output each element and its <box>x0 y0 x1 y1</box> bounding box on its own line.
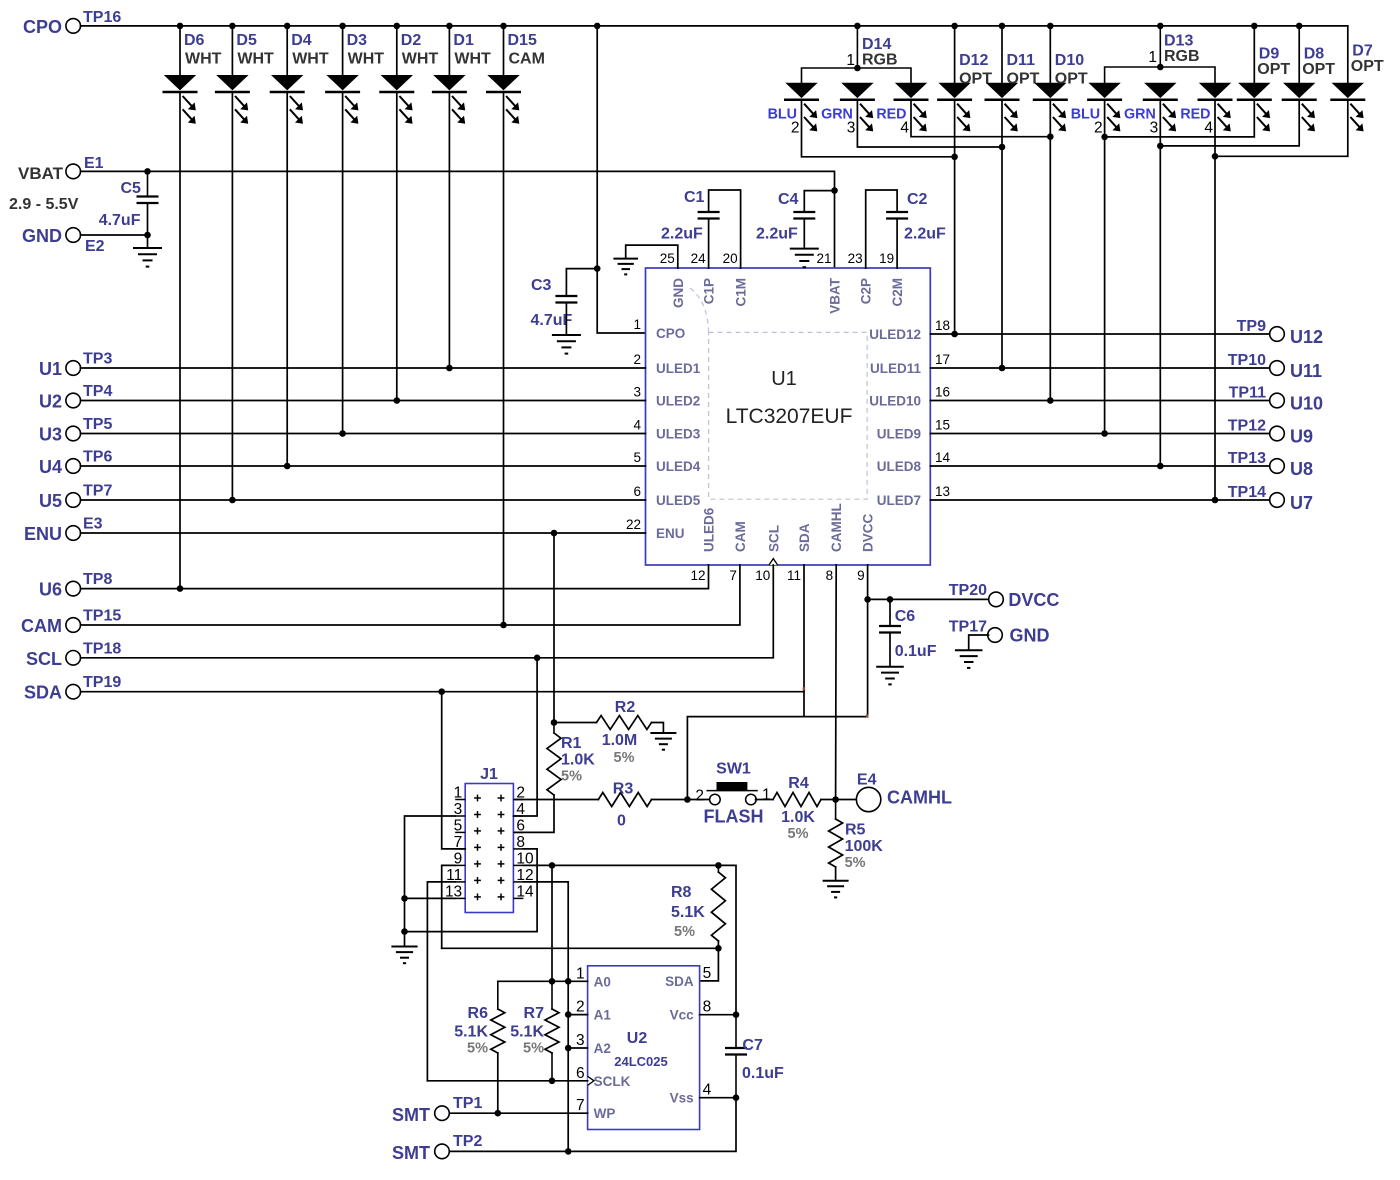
label FLASH <box>704 807 764 827</box>
wire J1 pin 9 to SDA net <box>442 865 456 948</box>
value 2.2uF C4 <box>756 226 798 243</box>
svg-text:0.1uF: 0.1uF <box>742 1065 784 1082</box>
svg-text:ULED2: ULED2 <box>656 394 700 409</box>
LED D9 (OPT) <box>1237 83 1272 132</box>
LED D4 (WHT) <box>270 75 305 124</box>
svg-text:D5: D5 <box>236 32 257 49</box>
svg-text:U2: U2 <box>627 1030 648 1047</box>
pin 5 U1 <box>633 450 641 465</box>
svg-text:U10: U10 <box>1290 394 1323 414</box>
svg-text:D15: D15 <box>508 32 537 49</box>
wire C7 to Vss <box>735 1055 737 1098</box>
junction CPO/C3 <box>594 265 601 272</box>
label U5 <box>39 491 62 511</box>
pin name ULED9 U1 <box>877 427 921 442</box>
resistor R1 zigzag <box>547 733 561 795</box>
junction <box>284 23 291 30</box>
label RED D14 <box>876 107 906 123</box>
svg-text:RGB: RGB <box>862 52 898 69</box>
svg-text:D9: D9 <box>1259 46 1280 63</box>
pin 7 U1 <box>729 568 737 583</box>
junction <box>500 23 507 30</box>
svg-text:5%: 5% <box>561 769 582 785</box>
label C1 <box>684 189 705 206</box>
label J1 <box>480 766 498 783</box>
resistor R2 zigzag <box>597 716 652 730</box>
ground TP17 <box>955 650 983 668</box>
wire J1 pin 3 to ground column <box>405 816 456 932</box>
wire VBAT rail to pin 21 <box>81 171 835 268</box>
svg-text:R3: R3 <box>613 781 634 798</box>
svg-text:U1: U1 <box>771 368 797 390</box>
label TP15 <box>83 608 121 625</box>
pin 14 U1 <box>935 450 951 465</box>
pin 1 SW1 <box>762 787 771 804</box>
svg-text:5: 5 <box>633 450 641 465</box>
svg-text:4: 4 <box>900 120 909 137</box>
svg-text:TP7: TP7 <box>83 483 112 500</box>
svg-text:SDA: SDA <box>797 523 812 552</box>
wire D13 BLU cathode to pin row <box>1104 100 1106 434</box>
label WHT <box>454 51 491 68</box>
label TP12 <box>1228 418 1266 435</box>
junction <box>854 23 861 30</box>
value 2.2uF C2 <box>904 226 946 243</box>
label BLU D14 <box>768 107 797 123</box>
svg-text:4: 4 <box>633 418 641 433</box>
pin name SDA U2 <box>665 974 694 989</box>
wire D6 cathode <box>179 92 181 588</box>
svg-text:VBAT: VBAT <box>828 277 843 314</box>
junction TP2 line <box>565 1148 572 1155</box>
wire J1 pin 11 to SCLK <box>427 882 455 1081</box>
svg-text:5%: 5% <box>674 924 695 940</box>
svg-text:ULED12: ULED12 <box>869 327 921 342</box>
svg-text:R4: R4 <box>788 775 809 792</box>
label C7 <box>742 1037 763 1054</box>
pin 17 U1 <box>935 352 950 367</box>
pin 7 U2 <box>576 1097 585 1114</box>
junction <box>951 23 958 30</box>
junction A0/R7 <box>549 978 556 985</box>
value 0.1uF C6 <box>895 643 937 660</box>
svg-text:OPT: OPT <box>1302 61 1335 78</box>
wire R8 to U2 SDA pin 5 <box>700 941 719 981</box>
label 2.9-5.5V <box>9 196 79 213</box>
pin name ULED1 U1 <box>656 361 701 376</box>
pin name C2P U1 <box>859 278 874 304</box>
pin 4 D13 <box>1204 120 1213 137</box>
J1 pin 3/4 row <box>455 811 523 818</box>
LED D14 BLU <box>784 83 819 132</box>
svg-text:A2: A2 <box>594 1041 611 1056</box>
label SMT TP1 <box>392 1105 430 1125</box>
svg-text:TP3: TP3 <box>83 351 112 368</box>
value 5.1K R7 <box>510 1024 544 1041</box>
LED D6 (WHT) <box>163 75 198 124</box>
junction C7 bottom / Vss <box>733 1094 740 1101</box>
wire TP1 to WP pin 7 <box>450 1112 588 1114</box>
svg-text:TP8: TP8 <box>83 571 112 588</box>
svg-text:GND: GND <box>671 278 686 308</box>
junction <box>1296 23 1303 30</box>
junction D13 BLU link <box>1101 134 1108 141</box>
svg-text:8: 8 <box>703 999 712 1016</box>
terminal E1 (VBAT) <box>66 164 81 179</box>
ground J1 <box>391 947 417 964</box>
label E2 <box>85 238 105 255</box>
svg-text:5%: 5% <box>788 826 809 842</box>
svg-text:WHT: WHT <box>185 51 222 68</box>
wire TP5 to ULED3 pin 4 <box>81 433 646 435</box>
svg-text:SCL: SCL <box>766 525 781 552</box>
pin 11 U1 <box>787 568 801 583</box>
svg-text:DVCC: DVCC <box>861 513 876 552</box>
pin 2 D13 <box>1094 120 1103 137</box>
svg-text:ENU: ENU <box>24 524 62 544</box>
label R8 <box>671 884 692 901</box>
wire pin 16 to TP11 <box>930 400 1269 402</box>
junction <box>446 23 453 30</box>
svg-text:16: 16 <box>935 385 950 400</box>
pin 5 U2 <box>703 965 712 982</box>
svg-text:A0: A0 <box>594 974 611 989</box>
wire D10 anode <box>1049 26 1051 83</box>
label U2 <box>627 1030 648 1047</box>
wire D1 cathode <box>448 92 450 368</box>
wire TP15 to CAM pin 7 <box>81 565 740 625</box>
label D11 <box>1007 52 1036 69</box>
wire D12 cathode to ULED12 <box>954 100 956 334</box>
pin 12 U1 <box>690 568 705 583</box>
label TP17 <box>949 619 987 636</box>
J1 pin 5 <box>454 817 463 834</box>
wire TP3 to ULED1 pin 2 <box>81 367 646 369</box>
LED D13 BLU <box>1087 83 1122 132</box>
label U3 <box>39 425 62 445</box>
svg-text:0.1uF: 0.1uF <box>895 643 937 660</box>
label D1 <box>453 32 474 49</box>
label TP3 <box>83 351 112 368</box>
svg-text:5%: 5% <box>523 1041 544 1057</box>
label R1 <box>561 735 582 752</box>
label OPT D10 <box>1055 71 1088 88</box>
svg-text:3: 3 <box>847 120 856 137</box>
J1 pin 13 <box>445 883 462 900</box>
label U9 <box>1290 427 1313 447</box>
junction D13 RED / pin line <box>1212 497 1219 504</box>
capacitor C2 plates <box>886 212 908 219</box>
svg-text:DVCC: DVCC <box>1008 590 1059 610</box>
junction D1/TP3 <box>446 365 453 372</box>
wire D14 RED cathode link <box>911 100 1050 137</box>
svg-text:Vss: Vss <box>670 1091 694 1106</box>
value 1.0K R1 <box>561 752 595 769</box>
label SW1 <box>716 761 751 778</box>
LED package D14 common-anode bracket <box>802 26 912 83</box>
wire C4 to ground <box>803 219 805 249</box>
svg-text:2: 2 <box>791 120 800 137</box>
pin 25 U1 <box>660 251 675 266</box>
capacitor C3 plates <box>555 296 577 303</box>
svg-text:TP12: TP12 <box>1228 418 1266 435</box>
wire TP17 to ground <box>969 635 989 650</box>
pin 16 U1 <box>935 385 950 400</box>
tolerance R2 <box>614 750 635 766</box>
junction D13 BLU / pin line <box>1101 430 1108 437</box>
svg-text:R6: R6 <box>468 1005 489 1022</box>
svg-text:ULED7: ULED7 <box>877 493 921 508</box>
wire E2 to C5 <box>81 234 148 236</box>
pin 4 U2 <box>703 1082 712 1099</box>
svg-text:CPO: CPO <box>23 17 62 37</box>
terminal TP15 (CAM) <box>66 618 81 633</box>
ground below R2 <box>650 733 676 750</box>
wire pin 14 to TP13 <box>930 465 1269 467</box>
value 5.1K R6 <box>454 1024 488 1041</box>
label TP9 <box>1237 318 1266 335</box>
svg-text:U1: U1 <box>39 359 62 379</box>
svg-text:1: 1 <box>1148 49 1157 66</box>
J1 pin 14 <box>516 883 534 900</box>
svg-text:SMT: SMT <box>392 1105 430 1125</box>
label C5 <box>121 180 142 197</box>
junction D14 anode <box>854 65 861 72</box>
wire C3 to ground <box>565 303 567 336</box>
label TP16 <box>83 9 121 26</box>
pin name ULED7 U1 <box>877 493 921 508</box>
svg-text:ULED3: ULED3 <box>656 427 701 442</box>
svg-text:D6: D6 <box>184 32 205 49</box>
pin name ULED12 U1 <box>869 327 921 342</box>
svg-text:R5: R5 <box>845 822 866 839</box>
svg-text:CAM: CAM <box>733 521 748 552</box>
resistor R1 1.0K <box>553 723 555 734</box>
wire SCLK line <box>427 1080 587 1082</box>
svg-text:GND: GND <box>1010 626 1050 646</box>
label TP5 <box>83 416 112 433</box>
junction J1 pin 10 <box>549 862 556 869</box>
terminal TP1 (SMT) <box>435 1106 450 1121</box>
svg-text:5%: 5% <box>467 1041 488 1057</box>
label WHT <box>237 51 274 68</box>
svg-text:OPT: OPT <box>1007 71 1040 88</box>
LED D1 (WHT) <box>432 75 467 124</box>
LED D14 RED <box>894 83 929 132</box>
svg-text:1: 1 <box>454 785 463 802</box>
svg-text:D1: D1 <box>453 32 474 49</box>
svg-text:D4: D4 <box>291 32 312 49</box>
svg-text:6: 6 <box>576 1065 585 1082</box>
svg-text:OPT: OPT <box>1257 61 1290 78</box>
switch SW1 (FLASH) <box>707 782 758 805</box>
connector J1 body <box>465 784 513 913</box>
svg-text:WHT: WHT <box>402 51 439 68</box>
svg-text:E4: E4 <box>857 772 877 789</box>
pin name ULED5 U1 <box>656 493 701 508</box>
wire R2 to ground <box>652 723 664 734</box>
wire TP7 to ULED5 pin 6 <box>81 499 646 501</box>
svg-text:U12: U12 <box>1290 327 1323 347</box>
terminal TP17 (GND) <box>988 628 1003 643</box>
resistor R6 zigzag <box>491 1009 505 1053</box>
value 2.2uF C1 <box>661 226 703 243</box>
junction D13 RED link <box>1212 153 1219 160</box>
label D13 <box>1164 33 1193 50</box>
svg-text:TP4: TP4 <box>83 383 112 400</box>
svg-text:R1: R1 <box>561 735 582 752</box>
pin 9 U1 <box>857 568 865 583</box>
svg-text:5.1K: 5.1K <box>454 1024 488 1041</box>
wire TP8 to ULED6 pin 12 <box>81 565 709 589</box>
wire R5 to ground <box>835 867 837 881</box>
capacitor C4 plates <box>793 212 815 219</box>
svg-text:Vcc: Vcc <box>670 1008 695 1023</box>
pin name A2 U2 <box>594 1041 611 1056</box>
wire D13 RED cathode to pin row <box>1214 100 1216 500</box>
label U8 <box>1290 459 1313 479</box>
svg-text:1: 1 <box>633 317 641 332</box>
pin 2 U1 <box>633 352 641 367</box>
pin 18 U1 <box>935 318 950 333</box>
label R2 <box>615 699 636 716</box>
terminal TP11 (U10) <box>1270 393 1285 408</box>
resistor R8 5.1K <box>717 865 719 872</box>
pin name ULED4 U1 <box>656 459 701 474</box>
label WHT <box>185 51 222 68</box>
svg-text:TP2: TP2 <box>453 1133 482 1150</box>
resistor R5 zigzag <box>829 819 843 867</box>
svg-text:WHT: WHT <box>292 51 329 68</box>
label TP20 <box>949 582 987 599</box>
wire E3 to ENU pin 22 <box>81 532 646 534</box>
pin 1 D13 <box>1148 49 1157 66</box>
J1 pin 6 <box>516 817 525 834</box>
label TP13 <box>1228 450 1266 467</box>
pin 20 U1 <box>723 251 738 266</box>
svg-text:5.1K: 5.1K <box>671 904 705 921</box>
J1 pin 11 <box>446 867 462 884</box>
wire VBAT to C4 <box>804 191 834 212</box>
svg-text:SDA: SDA <box>665 974 694 989</box>
wire Vcc pin 8 stub <box>700 1014 736 1016</box>
junction D2/TP4 <box>394 397 401 404</box>
wire D13 BLU link to OPT diode <box>1105 100 1255 137</box>
terminal TP4 (U2) <box>66 393 81 408</box>
value 0.1uF C7 <box>742 1065 784 1082</box>
LED D5 (WHT) <box>215 75 250 124</box>
J1 pin 12 <box>516 867 533 884</box>
pin name C2M U1 <box>890 278 905 307</box>
label RED D13 <box>1180 107 1210 123</box>
label ENU <box>24 524 62 544</box>
pin 10 U1 <box>755 568 770 583</box>
svg-text:C5: C5 <box>121 180 142 197</box>
label D7 <box>1352 43 1373 60</box>
pin name Vss U2 <box>670 1091 694 1106</box>
terminal E3 (ENU) <box>66 526 81 541</box>
wire J1 pin 2 to R3 <box>513 799 598 801</box>
svg-text:FLASH: FLASH <box>704 807 764 827</box>
pin 19 U1 <box>879 251 894 266</box>
junction D11 / pin 17 line <box>999 365 1006 372</box>
ground below C4 <box>790 249 819 268</box>
wire D13 RED link to OPT diode <box>1215 100 1348 157</box>
label TP11 <box>1229 385 1266 402</box>
pin name SCL U1 <box>766 525 781 552</box>
pin 4 D14 <box>900 120 909 137</box>
svg-text:TP1: TP1 <box>453 1095 482 1112</box>
label D10 <box>1055 52 1084 69</box>
junction D14 GRN to column <box>999 144 1006 151</box>
svg-text:5.1K: 5.1K <box>510 1024 544 1041</box>
label R3 <box>613 781 634 798</box>
svg-text:SW1: SW1 <box>716 761 751 778</box>
pin name DVCC U1 <box>861 513 876 552</box>
label DVCC <box>1008 590 1059 610</box>
svg-text:2: 2 <box>695 788 704 805</box>
label R6 <box>468 1005 489 1022</box>
terminal TP7 (U5) <box>66 493 81 508</box>
pin name CAM U1 <box>733 521 748 552</box>
svg-text:13: 13 <box>935 484 950 499</box>
label D12 <box>959 52 988 69</box>
pin name VBAT U1 <box>828 277 843 314</box>
value 1.0M R2 <box>602 732 638 749</box>
tolerance R5 <box>845 855 866 871</box>
pin name GND U1 <box>671 278 686 308</box>
svg-text:SMT: SMT <box>392 1143 430 1163</box>
terminal E2 (GND) <box>66 228 81 243</box>
wire J1 pin 10 down to A0 net <box>551 865 553 981</box>
label D2 <box>401 32 422 49</box>
label TP7 <box>83 483 112 500</box>
svg-text:2.9 - 5.5V: 2.9 - 5.5V <box>9 196 79 213</box>
resistor R5 100K <box>835 800 837 820</box>
pin name ULED8 U1 <box>877 459 922 474</box>
svg-text:VBAT: VBAT <box>18 164 64 183</box>
junction R6 bottom <box>495 1110 502 1117</box>
svg-text:10: 10 <box>755 568 770 583</box>
svg-text:24: 24 <box>691 251 707 266</box>
junction D3/TP5 <box>339 430 346 437</box>
svg-text:D13: D13 <box>1164 33 1193 50</box>
svg-text:TP14: TP14 <box>1228 484 1266 501</box>
wire TP18 to SCL pin 10 <box>81 565 774 658</box>
wire R1 to J1 pin 6 <box>513 795 554 832</box>
wire-end marker <box>866 715 869 718</box>
svg-text:CAM: CAM <box>21 616 62 636</box>
wire DVCC to TP20 <box>868 598 990 600</box>
svg-text:20: 20 <box>723 251 738 266</box>
svg-text:TP6: TP6 <box>83 449 112 466</box>
svg-text:11: 11 <box>787 568 801 583</box>
U1 exposed pad outline (dashed) <box>690 288 867 499</box>
wire D3 cathode <box>342 92 344 433</box>
J1 pin 3 <box>454 801 463 818</box>
svg-text:100K: 100K <box>845 838 884 855</box>
terminal TP6 (U4) <box>66 459 81 474</box>
wire SDA to J1 pin 7 <box>442 692 466 849</box>
resistor R4 zigzag <box>773 793 821 807</box>
junction C5 top <box>144 168 151 175</box>
pin 23 U1 <box>848 251 863 266</box>
label E1 <box>84 155 104 172</box>
value 4.7uF C3 <box>531 312 573 329</box>
pin 1 D14 <box>846 52 855 69</box>
pin name CAMHL U1 <box>829 503 844 552</box>
pin 2 D14 <box>791 120 800 137</box>
